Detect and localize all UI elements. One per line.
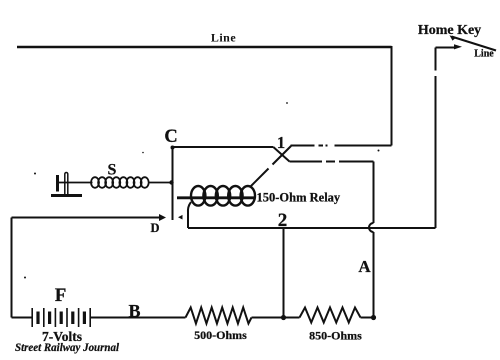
svg-text:Home Key: Home Key: [418, 23, 481, 38]
svg-text:S: S: [108, 162, 117, 179]
svg-text:A: A: [358, 257, 371, 276]
svg-text:Line: Line: [474, 49, 494, 60]
svg-text:F: F: [55, 285, 67, 306]
svg-text:2: 2: [278, 210, 288, 231]
svg-text:B: B: [128, 301, 140, 321]
svg-text:Street Railway Journal: Street Railway Journal: [15, 342, 120, 354]
svg-text:850-Ohms: 850-Ohms: [309, 329, 362, 343]
svg-text:D: D: [150, 221, 159, 235]
svg-text:Line: Line: [211, 31, 237, 45]
svg-text:1: 1: [277, 133, 285, 152]
svg-text:150-Ohm Relay: 150-Ohm Relay: [257, 191, 341, 205]
svg-text:500-Ohms: 500-Ohms: [194, 328, 247, 342]
svg-text:C: C: [164, 127, 177, 147]
